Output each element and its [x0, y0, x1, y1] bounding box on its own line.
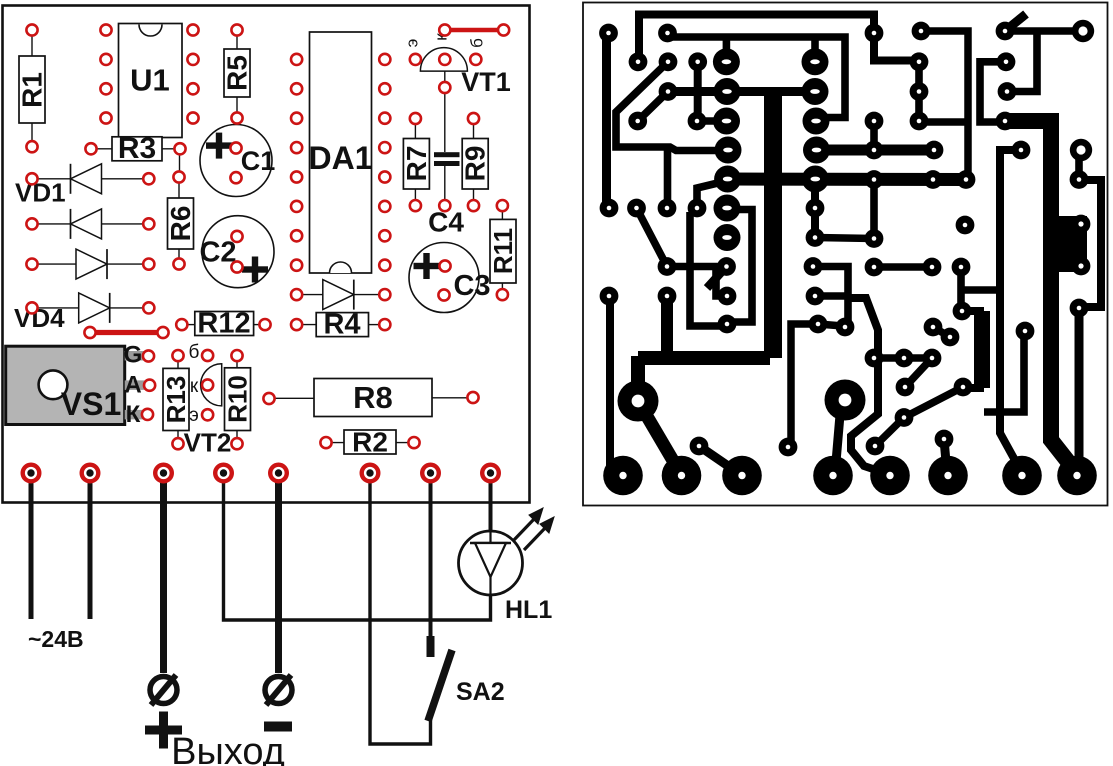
wire: row324 stub [818, 324, 843, 326]
wire: thick bus B right [1005, 121, 1077, 473]
wire R10 leads [236, 358, 238, 368]
svg-text:К: К [126, 401, 141, 428]
wire R9 leads [473, 121, 475, 138]
wire R6 leads [178, 179, 180, 199]
jumper wire (red) top [445, 28, 504, 33]
resistor R7 [403, 139, 429, 190]
wire: diagonal 668,91.5 to 637.7,121 [638, 92, 668, 122]
wire: top power bus [639, 15, 919, 62]
svg-text:C1: C1 [241, 146, 276, 176]
resistor R10 [225, 368, 251, 431]
wire: big pad2 to bottom pad4 [836, 415, 840, 462]
screw terminal plus [150, 677, 177, 704]
wire R3 leads [93, 148, 113, 150]
wire: P14 down to 727,324 [690, 212, 727, 326]
diode VD4 [79, 293, 110, 323]
wire: net 921,31 corner down [921, 31, 968, 180]
wire: pad k stub to pad6 [944, 439, 946, 462]
wire R2 leads [328, 442, 345, 444]
wire: riser to DIP pad right [811, 37, 819, 62]
wire to HL1 bottom [224, 473, 491, 620]
wire: col919 vertical [915, 62, 923, 121]
diode VD2 [71, 209, 102, 239]
svg-text:R13: R13 [161, 376, 191, 424]
wire R4 leads [299, 324, 317, 326]
LED HL1 [459, 531, 523, 595]
svg-text:Выход: Выход [171, 731, 285, 766]
wire: thick Z band [638, 351, 770, 365]
svg-text:к: к [190, 376, 199, 397]
IC DA1 [310, 32, 372, 273]
wire: reversed C 1006,61.8 [980, 62, 1006, 122]
VS1 tab G [125, 351, 146, 361]
diode VD5 [323, 280, 354, 310]
wire: thick Z vertical [661, 296, 673, 352]
diode VD1 [71, 164, 102, 194]
wire VT1 collector to C4 [444, 62, 446, 85]
wire: flag stub on pad 726.5,266.5 [707, 267, 727, 289]
capacitor C1 [200, 125, 272, 197]
svg-text:U1: U1 [130, 63, 170, 98]
switch SA2 [427, 636, 435, 657]
svg-text:VD1: VD1 [15, 178, 66, 208]
wire: col1079 link [1075, 150, 1083, 180]
svg-text:R3: R3 [118, 132, 156, 165]
resistor R6 [168, 198, 194, 249]
wire: left long vertical [602, 33, 611, 208]
wire: riser to DIP pad [723, 37, 731, 62]
transistor VT1 [420, 48, 467, 72]
wire: diagonal e-g [905, 358, 932, 387]
svg-text:э: э [403, 39, 422, 48]
wire VD4 row [34, 307, 147, 309]
HL1 arrows [513, 517, 536, 541]
svg-text:VS1: VS1 [61, 386, 121, 422]
svg-text:G: G [124, 342, 143, 369]
resistor R5 [224, 49, 250, 97]
svg-text:VT2: VT2 [184, 428, 232, 458]
right board outline [583, 3, 1108, 506]
wire: row9 link [667, 263, 727, 271]
minus symbol [264, 722, 292, 732]
wire: flag on pad 1005,31 [1005, 14, 1026, 31]
wire: row5 thick link [817, 145, 935, 156]
screw terminal minus [265, 677, 292, 704]
wire R11 leads [501, 208, 503, 219]
wire: row9 link right [874, 263, 932, 271]
copper pour block [1044, 216, 1087, 272]
diode VD3 [76, 249, 107, 279]
svg-text:R10: R10 [223, 375, 253, 423]
capacitor C4 [434, 152, 460, 157]
svg-text:R4: R4 [323, 308, 360, 340]
wire output minus [275, 473, 282, 673]
resistor R2 [344, 430, 396, 454]
wire VD5 row [299, 294, 382, 296]
wire VD2 row [34, 223, 147, 225]
IC U1 [119, 24, 183, 138]
resistor R9 [462, 139, 488, 190]
wire VD3 row [34, 263, 147, 265]
wire: col874 link2 [870, 180, 878, 239]
resistor R3 [112, 137, 162, 161]
wire: col874 link [870, 121, 878, 150]
VS1 tab K [125, 410, 146, 420]
wire: net 813,266.5 down to 845,327 [813, 267, 848, 326]
wire: diagonal a-b [933, 327, 950, 337]
wire: zigzag to bottom pad 5 [848, 298, 882, 472]
svg-text:R2: R2 [352, 426, 388, 457]
wire: zigzag from pad 668,61.8 [616, 62, 728, 151]
resistor R12 [195, 312, 254, 336]
thyristor VS1 body [6, 346, 125, 424]
resistor R8 [314, 379, 432, 417]
svg-text:A: A [124, 372, 141, 399]
resistor R13 [163, 368, 189, 430]
wire: arm row3 [668, 87, 815, 96]
wire: left vertical 2 [606, 296, 614, 468]
svg-text:R9: R9 [460, 146, 491, 182]
wire: net from pad R1-top across top [668, 37, 846, 118]
jumper wire (red) lower [90, 330, 163, 335]
wire to HL1 top [489, 473, 493, 532]
wire: inner loop 727,208 to 727,324 [727, 210, 752, 323]
wire: C shape thick [962, 307, 984, 315]
wire: top right row link [1005, 27, 1083, 35]
wire: branch to vertical A [961, 286, 1000, 294]
wire: col815 vertical chain [811, 179, 819, 238]
wire: 919,122 right [919, 118, 966, 126]
svg-text:R7: R7 [401, 146, 432, 182]
svg-text:VD4: VD4 [14, 303, 65, 333]
wire: 818,324 to pad 788,447 [791, 324, 818, 447]
svg-text:R8: R8 [353, 380, 393, 415]
svg-text:R6: R6 [165, 206, 196, 242]
wire: col1079 to bottom pad8 [1075, 308, 1084, 460]
wire: vertical A net [1000, 150, 1022, 473]
svg-text:э: э [189, 405, 199, 426]
wire: small diagonal to bottom pad3 [699, 446, 742, 476]
wire to SA2 bottom [370, 473, 431, 744]
wire R13 leads [177, 358, 179, 368]
wire to SA2 top [429, 473, 433, 636]
wire output plus [160, 473, 167, 673]
wire: 1025,331 down-left [984, 331, 1024, 412]
wire R1 leads [31, 33, 33, 57]
wire: jog pad 727,296 to flag pad [716, 267, 727, 296]
wire ~24V lead 1 [29, 473, 34, 619]
wire R7 leads [414, 121, 416, 138]
wire: link P8-P11 [697, 117, 727, 125]
pads (right board, DIP large) [713, 48, 830, 251]
plus symbol [145, 726, 182, 735]
wire: central thick bus [764, 88, 782, 358]
transistor VT2 [201, 364, 222, 406]
resistor R4 [316, 313, 368, 337]
svg-text:HL1: HL1 [505, 596, 552, 624]
wire: branch down to pad 667,208 [664, 147, 672, 206]
svg-text:C3: C3 [453, 270, 490, 302]
wire ~24V lead 2 [88, 473, 93, 619]
wire: right border loop [1079, 180, 1101, 307]
wire R12 leads [184, 324, 196, 326]
VS1 tab A [125, 380, 146, 390]
svg-text:R11: R11 [488, 228, 518, 274]
pads in copper block [1072, 215, 1091, 234]
wire: diagonal chain d-h-center [875, 387, 963, 446]
wire: vertical 697.7 [694, 62, 702, 121]
pads (right board, terminal holes) [1070, 20, 1094, 161]
capacitor C2 [202, 216, 274, 288]
resistor R1 [19, 56, 45, 123]
pads (right board, bottom terminals) [603, 456, 1097, 496]
pads (right board, small) [599, 22, 1088, 457]
wire: row 296 link [815, 292, 848, 300]
wire VD1 row [34, 178, 147, 180]
wire R8 leads [271, 397, 315, 399]
terminal pads (big red) [23, 465, 499, 482]
svg-text:R12: R12 [197, 307, 250, 339]
wire link R3 to R6 [179, 149, 181, 177]
wire: row 358 link [874, 354, 932, 362]
wire: diagonal 636.5,208 to 667,266.5 [637, 208, 668, 267]
svg-text:R5: R5 [222, 55, 253, 91]
wire: thick arm row6 [728, 173, 966, 187]
svg-text:SA2: SA2 [456, 678, 505, 706]
svg-text:R1: R1 [17, 72, 48, 108]
svg-text:VT1: VT1 [461, 67, 511, 97]
left board outline [3, 6, 530, 503]
wire R5 leads [236, 33, 238, 50]
wire: big pad1 diagonal to bottom pad2 [638, 401, 682, 475]
svg-text:б: б [189, 342, 200, 363]
wire: row8 link right [815, 238, 874, 239]
wire: descender 961,267 [957, 267, 965, 311]
capacitor C3 [409, 243, 479, 313]
svg-text:~24В: ~24В [28, 626, 84, 652]
svg-text:б: б [468, 38, 487, 48]
pads (left board through-holes) [26, 24, 509, 449]
svg-text:DA1: DA1 [308, 140, 372, 176]
wire: P14 up-right L [697, 182, 722, 206]
wire: branch down to 1007,91.5 [1007, 31, 1037, 92]
resistor R11 [490, 219, 516, 283]
pads (right board, big round) [618, 380, 866, 422]
